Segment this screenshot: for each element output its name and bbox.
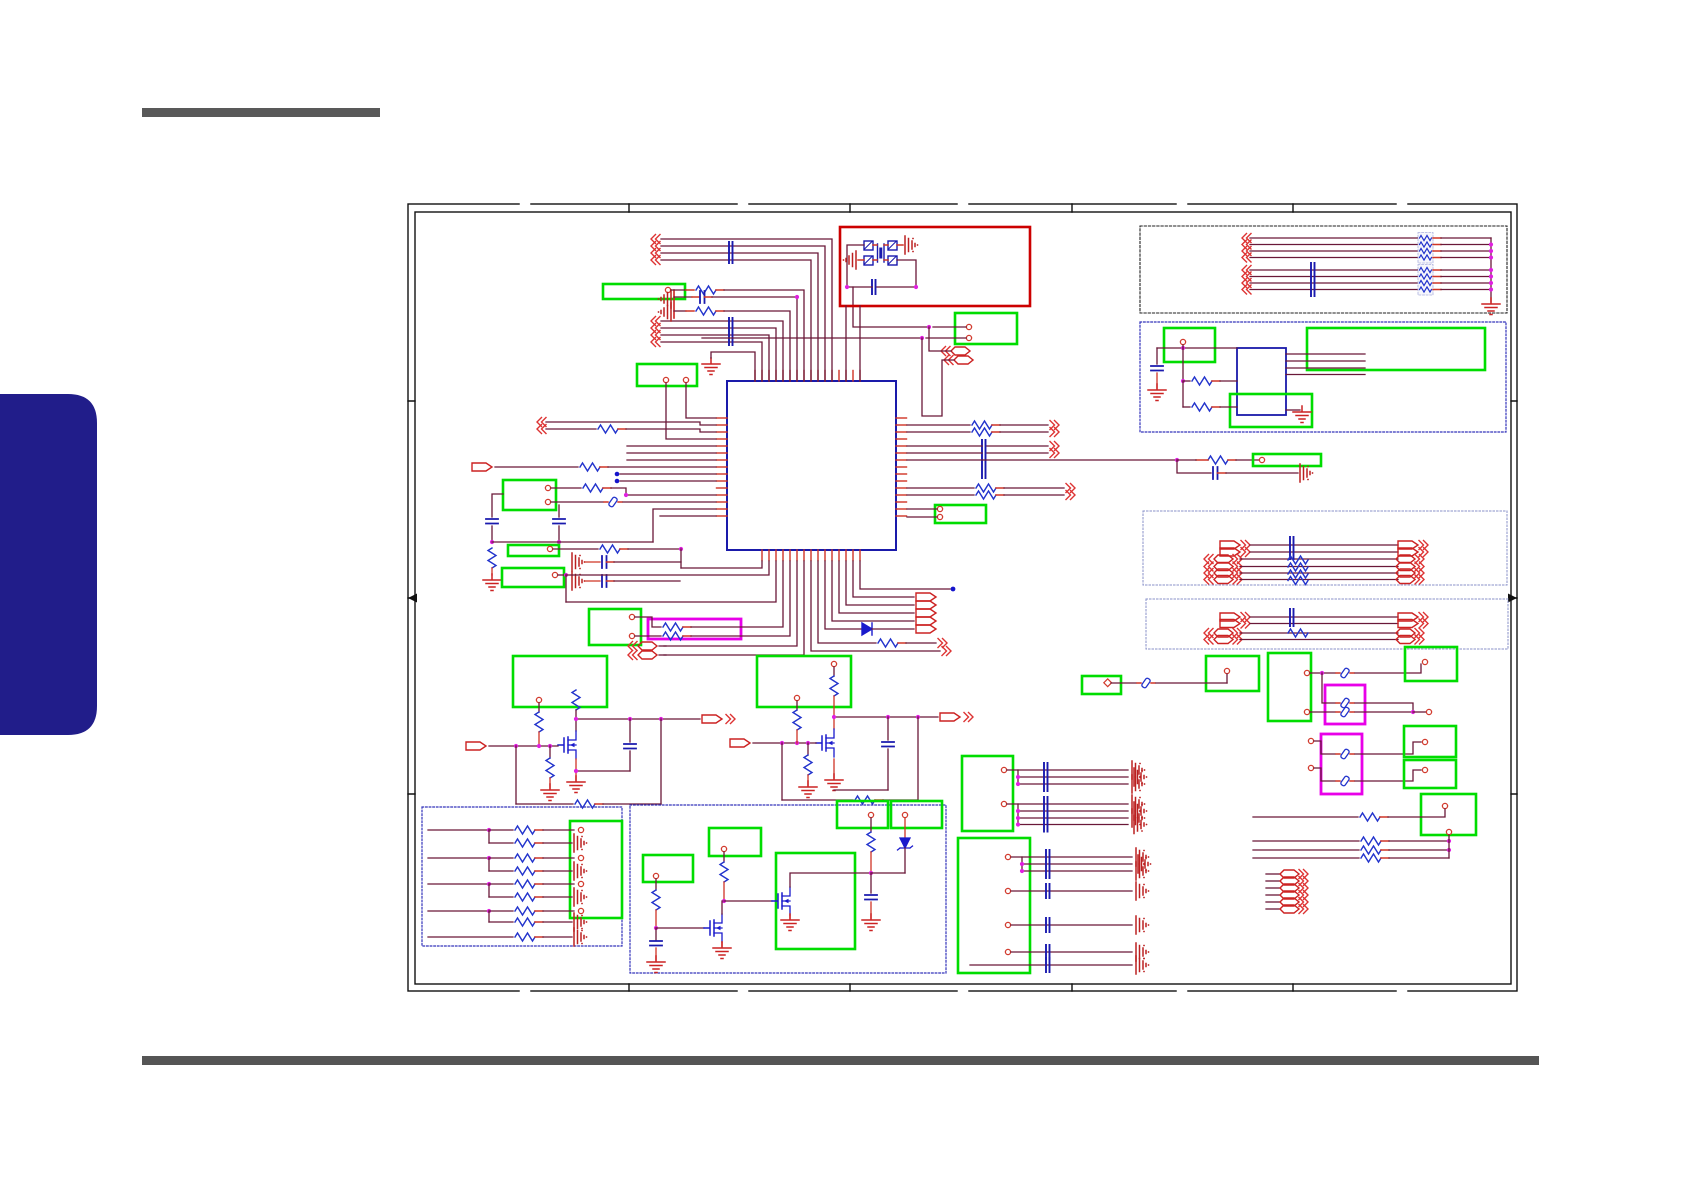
wire q1 gate rail (489, 745, 558, 747)
pin J28.1 (902, 812, 907, 817)
connector J20 green (1421, 794, 1476, 835)
bottom footer bar (142, 1056, 1539, 1065)
mosfet Q1 (558, 731, 576, 759)
fuse L7 (1336, 770, 1421, 787)
wire bus A net (651, 256, 811, 382)
connector J3 green (955, 313, 1017, 344)
pin J21.1 (1001, 767, 1006, 772)
wire bus B net (651, 338, 762, 382)
pin J16.2 (1304, 709, 1309, 714)
wire fan group5 (1011, 916, 1149, 934)
wire bus D right (1433, 282, 1491, 284)
wire E2 net b (1204, 635, 1424, 644)
connector J4 green (935, 505, 986, 523)
pullup box J1 (blue dotted) (422, 807, 622, 946)
capacitor C15 (862, 873, 880, 931)
wire E2 net (1220, 619, 1428, 628)
wire long right net (907, 458, 1179, 462)
wire rail2 (574, 715, 735, 724)
wire E2 net (1220, 613, 1428, 622)
capacitor C4 (847, 280, 916, 294)
pin J14.1 (1259, 457, 1264, 462)
resistor R18 vert (830, 667, 838, 729)
capacitor C9 (834, 717, 894, 790)
wire E1 net b (1204, 575, 1424, 584)
wire q2 gate rail (753, 742, 816, 744)
wire vert l (781, 743, 783, 800)
pullup net 1 (428, 826, 587, 852)
left navy side tab (0, 394, 97, 735)
connector J11 green (1164, 328, 1215, 362)
wire q4 drain (721, 901, 723, 914)
sheet border frame (408, 204, 1517, 991)
ground comb g3 (572, 553, 600, 571)
wire gnd-U1 pin1 (711, 352, 755, 381)
resistor R3 net (537, 425, 716, 434)
wire E1 net b (1204, 562, 1424, 571)
off-page tag bundle (1266, 870, 1308, 914)
node junction A (920, 336, 924, 340)
resistor R8 (907, 428, 1059, 437)
wire bus D net (1242, 285, 1418, 294)
pin J10.2 (794, 695, 799, 700)
wire rail ext (0, 0, 1, 1)
wire left row 646 (664, 561, 797, 646)
resistor R14 vert (535, 703, 543, 746)
resistor R12 (635, 561, 783, 631)
capacitor C8 (574, 719, 636, 773)
wire bd0 (860, 561, 955, 591)
connector J26 green (776, 853, 855, 949)
ground GND2 (1482, 298, 1500, 315)
cap chain right (553, 505, 565, 544)
power box J2 (blue dotted) (630, 805, 946, 973)
wire bdt1 (846, 561, 936, 609)
wire collector (1489, 238, 1493, 302)
resistor R11 (907, 491, 1075, 500)
connector J24 green (643, 855, 693, 882)
capacitor C14 (647, 928, 665, 973)
resistor R20 vert (799, 743, 817, 798)
resistor R7 (907, 421, 1059, 430)
resistor R19 vert (793, 701, 801, 743)
wire E1 net (1220, 541, 1428, 550)
pin J3.2 (926, 335, 972, 340)
connector J10 green (757, 656, 851, 707)
pin J6.1 (547, 546, 552, 551)
wire vert right (660, 719, 662, 804)
cap chain left (486, 494, 503, 544)
capacitor C5 (602, 556, 681, 568)
pin J20.1 (1442, 803, 1447, 808)
off-page tag pwr-l (466, 742, 486, 750)
io box E2 (dashed) (1146, 599, 1508, 649)
ground q1 (567, 759, 585, 793)
node junction B (927, 325, 931, 329)
fuse L4 (1322, 673, 1413, 712)
connector J12 green (1307, 328, 1485, 370)
wire bus C net (1242, 253, 1418, 262)
node junction C (845, 285, 849, 289)
wire J2.1-U1 (666, 383, 716, 439)
connector J5 green (503, 480, 556, 510)
cap row2 (907, 449, 1059, 458)
pin J2.1 (663, 377, 668, 382)
pullup net 3 (428, 880, 587, 906)
pin J19.1 (1422, 767, 1427, 772)
connector J21 green (962, 756, 1013, 831)
node j2 (780, 741, 810, 745)
wire xtal feeds (846, 306, 860, 381)
wire fan group6 (1011, 943, 1149, 961)
branch cap net (1177, 460, 1313, 482)
off-page tag pwr-r (730, 739, 750, 747)
ground q4 (713, 942, 731, 959)
capacitor C7 bus (907, 440, 1059, 478)
pin J8.2 (629, 633, 634, 638)
wire bus B net (651, 331, 769, 382)
connector J27 green (837, 801, 888, 828)
wire bus B net (651, 324, 776, 382)
wire bus D right (1433, 276, 1491, 278)
pullup net 2 (428, 854, 587, 880)
connector J13 green (1230, 394, 1312, 427)
pin J10.1 (831, 661, 836, 666)
ground q2 (825, 759, 843, 791)
wire bus C right (1433, 257, 1491, 259)
fuse L6 (1336, 742, 1421, 760)
connector J22 green (958, 838, 1030, 973)
wire bus D net (1242, 266, 1418, 275)
capacitor C6 (602, 575, 680, 587)
red bus stub (673, 290, 675, 318)
connector J16 green (1268, 653, 1311, 721)
isolation box M3 magenta (1321, 734, 1362, 794)
resistor R4 (551, 484, 716, 497)
loose nets left (627, 446, 716, 516)
pin J22.2 (1005, 888, 1010, 893)
connector J29 green (1082, 676, 1121, 694)
wire left row 575 (566, 561, 769, 575)
pin J21.2 (1001, 801, 1006, 806)
wire left row 602 (566, 561, 776, 602)
off-page tag IN1 (472, 463, 716, 471)
pin J1.1 (665, 287, 670, 292)
pin stub a (1308, 738, 1335, 754)
wire E1 net b (1204, 569, 1424, 578)
pin J27.1 (868, 812, 873, 817)
hex tags M1 (628, 642, 666, 660)
pin J5.2 (545, 499, 550, 504)
pin J7.1 (552, 572, 568, 577)
capacitor C13 (1290, 609, 1294, 626)
connector J14 green (1253, 454, 1321, 466)
connector J23 green (570, 821, 622, 918)
wire bus C net (1242, 247, 1418, 256)
resistor RN1 (1288, 556, 1308, 585)
resistor R5 vert (483, 548, 501, 591)
wire net 841 (1253, 837, 1451, 845)
IC U1 main embedded controller (717, 371, 907, 561)
wire bus C right (1433, 250, 1491, 252)
wire fan group3 (1011, 848, 1151, 880)
wire net 817 (1253, 809, 1445, 821)
diode D1 (825, 561, 936, 635)
ground comb xt-r (905, 236, 918, 254)
wire to q4 gate (656, 927, 704, 929)
wire bus D right (1433, 289, 1491, 291)
wire zener join (871, 872, 905, 874)
top header bar (142, 108, 380, 117)
connector J17 green (1405, 647, 1457, 681)
pin J22.1 (1005, 854, 1010, 859)
pin J29.1 (1104, 679, 1112, 687)
connector J2 green (637, 364, 697, 386)
wire to q3 gate (724, 900, 772, 902)
wire bdt0 (853, 561, 936, 601)
wire drain chain (575, 710, 577, 731)
wire res row 643 (818, 561, 947, 648)
wire bus C right (1433, 244, 1491, 246)
pin J22.4 (1005, 949, 1010, 954)
off-page tag OSC (922, 327, 973, 416)
capacitor C11 (1148, 348, 1166, 401)
wire rail2 r (832, 713, 973, 722)
resistor pack RP2 (1418, 265, 1433, 296)
fuse L2 (1111, 677, 1227, 688)
wire bus A net (651, 249, 818, 382)
wire bus D net (1242, 279, 1418, 288)
wire net 850 (1253, 846, 1451, 854)
wire left row 568 (681, 561, 762, 568)
fuse L3 (1310, 664, 1421, 679)
fuse L5 (1310, 706, 1432, 717)
wire u2 outs (1286, 354, 1365, 375)
pin J8.1 (629, 614, 634, 619)
wire E2 net b (1204, 629, 1424, 638)
resistor R2 (674, 307, 790, 381)
wire pair chev (537, 418, 716, 427)
wire bus C net (1242, 240, 1418, 249)
capacitor C2 bus B (729, 318, 733, 345)
wire bus C right (1433, 237, 1491, 239)
wire fan group1 (1007, 761, 1147, 793)
connector J6 green (508, 545, 559, 556)
wire net 858 (1253, 854, 1449, 862)
pin J22.3 (1005, 922, 1010, 927)
resistor R15 vert (572, 690, 580, 710)
wire fan group2 (1007, 795, 1147, 834)
io box E1 (dashed) (1143, 511, 1507, 585)
pin J5.1 (545, 485, 550, 490)
resistor R22 (1181, 348, 1237, 385)
connector J19 green (1404, 760, 1456, 788)
resistor R1 (671, 286, 804, 381)
connector J8 green (589, 609, 641, 645)
resistor R17 (516, 800, 661, 808)
wire bdt2 (839, 561, 936, 617)
pin J24.1 (653, 873, 658, 878)
capacitor C1 bus A (729, 242, 733, 263)
IC U2 regulator (1237, 348, 1286, 415)
resistor R26 vert (867, 818, 875, 875)
isolation box M1 (magenta) (648, 619, 741, 639)
pin J15.1 (1224, 668, 1229, 683)
ground comb g2 (658, 303, 671, 321)
wire left drop (565, 575, 567, 602)
resistor R24 vert (720, 852, 728, 903)
wire vert r (917, 717, 919, 800)
ground comb g1 (658, 290, 671, 308)
wire bus D right (1433, 269, 1491, 271)
pin stub b (1308, 765, 1335, 781)
fuse L1 (551, 496, 716, 507)
resistor R10 (907, 484, 1075, 493)
pin J16.1 (1304, 670, 1309, 675)
wire u2 in (1157, 345, 1237, 350)
pin J18.1 (1422, 739, 1427, 744)
ground comb xt-l (843, 251, 856, 269)
wire v681 (680, 549, 682, 568)
connector J18 green (1404, 726, 1456, 757)
capacitor C3 (674, 291, 799, 381)
resistor R9 (1177, 456, 1259, 464)
pin J4.2 (907, 514, 943, 519)
wire E1 net b (1204, 555, 1424, 564)
wire bus A net (651, 235, 832, 382)
wire mid rail (492, 509, 716, 542)
pin J20.2 (1446, 829, 1451, 834)
mosfet Q2 (816, 729, 834, 757)
connector J9 green (513, 656, 607, 707)
wire bus B net (651, 317, 783, 382)
pin J25.1 (721, 846, 726, 851)
node junction D (914, 285, 918, 289)
wire collector r (1448, 835, 1450, 858)
connector J7 green (502, 568, 564, 587)
pin J17.1 (1422, 659, 1427, 664)
connector J15 green (1206, 656, 1259, 691)
mosfet Q4 (704, 914, 722, 942)
capacitor C12 (1290, 537, 1294, 559)
wire vert left (515, 746, 517, 804)
wire E1 net (1220, 548, 1428, 557)
wire q3 drain (790, 873, 871, 887)
wire u2 gnd (1286, 406, 1311, 423)
capacitor C10 bus (1311, 263, 1315, 296)
mosfet Q3 (772, 887, 790, 915)
resistor R21 (782, 796, 918, 804)
wire J2.2-U1 (686, 383, 716, 418)
wire fan group4 (1011, 882, 1149, 900)
resistor R16 vert (541, 746, 559, 801)
resistor RN2 (1288, 629, 1308, 637)
shield box (black dotted) (1140, 226, 1507, 313)
wire xtal-J3a (853, 287, 929, 327)
pin J11.1 (1180, 339, 1185, 344)
crystal Y1 wiring (847, 245, 916, 287)
crystal circuit box red (840, 227, 1030, 306)
connector J25 green (709, 828, 761, 856)
resistor R23 (1183, 381, 1237, 411)
wire fan group7 (970, 956, 1149, 974)
isolation box M2 magenta (1325, 685, 1365, 724)
nc stub 481 (615, 479, 716, 484)
wire long net U1-J3b (702, 337, 922, 339)
pullup net 5 (428, 928, 587, 946)
zener D2 (898, 818, 913, 873)
pin J2.2 (683, 377, 688, 382)
connector J28 green (891, 801, 942, 828)
connector J1 green (603, 284, 685, 299)
resistor R13 (635, 561, 790, 640)
node j (514, 744, 552, 748)
wire bus A net (651, 242, 825, 382)
wire bdt3 (832, 561, 936, 625)
nc stub 474 (615, 472, 716, 477)
resistor R25 vert (652, 879, 660, 930)
ground q3 (781, 914, 799, 931)
wire chev row 651 (811, 561, 951, 656)
resistor R6 (553, 545, 683, 553)
ground comb g4 (572, 572, 600, 590)
wire bus D net (1242, 272, 1418, 281)
wire bus C net (1242, 234, 1418, 243)
pin J3.1 (933, 324, 972, 329)
pin J9.1 (536, 697, 541, 702)
resistor pack RP1 (1418, 233, 1433, 264)
ground GND1 (702, 358, 720, 375)
wire left row 655 (664, 561, 804, 655)
pin J4.1 (907, 506, 943, 511)
regulator box (blue dotted) (1140, 322, 1506, 432)
pullup net 4 (428, 907, 587, 931)
